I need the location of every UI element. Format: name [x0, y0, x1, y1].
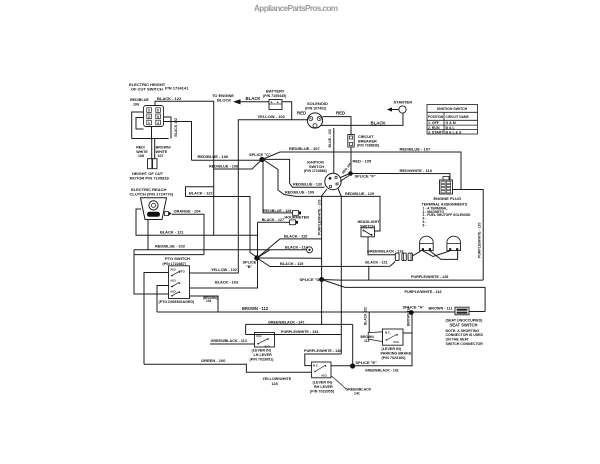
wire headlight plug to lamp 1	[413, 251, 421, 256]
svg-text:6 -: 6 -	[423, 223, 427, 227]
svg-text:3. START: 3. START	[428, 130, 444, 134]
solenoid body	[307, 113, 322, 128]
svg-text:BLACK: BLACK	[246, 96, 262, 101]
svg-text:114: 114	[364, 339, 370, 343]
svg-text:ENGINE PLUG: ENGINE PLUG	[434, 196, 462, 201]
wire purple/white drop at x=368.8	[368, 266, 370, 280]
svg-text:(LEVER IN): (LEVER IN)	[252, 348, 272, 352]
svg-text:GREEN - 100: GREEN - 100	[201, 358, 226, 363]
splice C	[259, 157, 264, 162]
wire drop to splice E from lever line	[352, 324, 354, 366]
svg-text:BLACK - 110: BLACK - 110	[284, 234, 307, 239]
wire jog above BLACK-122 label	[186, 187, 214, 197]
battery terminals	[269, 103, 282, 105]
svg-text:104: 104	[206, 299, 212, 303]
svg-text:SPLICE "D": SPLICE "D"	[300, 277, 322, 282]
svg-text:YELLOW/WHITE: YELLOW/WHITE	[263, 377, 292, 381]
wire GREEN/BLACK-147	[246, 323, 353, 325]
wire motor double lead right	[154, 139, 156, 159]
svg-text:RED/BLUE - 108: RED/BLUE - 108	[209, 164, 238, 168]
wire lever feed left vertical	[245, 324, 247, 334]
svg-text:BLACK - 115: BLACK - 115	[280, 261, 304, 266]
wire ignition to splice F lower	[340, 176, 349, 182]
svg-text:N.O.: N.O.	[394, 340, 400, 344]
svg-text:PURPLE/WHITE - 116: PURPLE/WHITE - 116	[405, 290, 442, 294]
connector seat switch shorting plug	[455, 307, 469, 315]
svg-text:RED/BLUE - 107: RED/BLUE - 107	[289, 146, 320, 151]
wire RED/BLUE-109 splice C to ignition area	[263, 160, 341, 197]
svg-text:SPLICE "E": SPLICE "E"	[356, 360, 378, 365]
connector headlight barrel 1	[395, 253, 399, 261]
wire GREEN-100 PTO feed	[144, 273, 169, 365]
splice B	[254, 255, 259, 260]
svg-text:106: 106	[133, 102, 139, 106]
wire RED/BLUE-130 splice C to ignition	[263, 159, 325, 187]
svg-text:128: 128	[272, 382, 278, 386]
wire PURPLE/WHITE-128 splice D to headlight return	[322, 279, 484, 282]
svg-text:2. RUN: 2. RUN	[428, 126, 440, 130]
PTO switch contacts	[171, 267, 186, 293]
svg-text:RED/BLUE - 107: RED/BLUE - 107	[400, 146, 431, 151]
svg-text:SPLICE "C": SPLICE "C"	[249, 152, 271, 157]
parking brake switch body	[383, 329, 404, 345]
svg-text:G & M: G & M	[446, 121, 456, 125]
svg-text:(P/N 7023055): (P/N 7023055)	[310, 390, 335, 394]
svg-text:CONNECTOR IS USED: CONNECTOR IS USED	[446, 333, 484, 337]
connector ORANGE-104 plug	[165, 212, 169, 216]
svg-text:(P/N 1719866): (P/N 1719866)	[304, 169, 327, 173]
svg-text:BLACK - 127: BLACK - 127	[262, 218, 284, 222]
svg-text:SWITCH: SWITCH	[309, 165, 324, 169]
svg-text:(LEVER IN): (LEVER IN)	[313, 380, 333, 384]
wire BLACK-121 clutch to splice B	[136, 209, 258, 235]
wire lamp 1 right foot to lamp 2	[430, 251, 458, 260]
wire RED/BLUE-103 and BLACK-114 bus	[134, 249, 306, 251]
wire RED/BLUE-103 to PTO lower pin	[134, 250, 169, 294]
svg-text:5: 5	[157, 115, 159, 119]
svg-text:N.C.: N.C.	[257, 334, 263, 338]
svg-text:BLUE - 102: BLUE - 102	[328, 129, 332, 148]
svg-text:BROWN - 111: BROWN - 111	[429, 306, 453, 310]
svg-text:BLACK - 121: BLACK - 121	[160, 230, 184, 235]
headlight switch symbol	[363, 230, 372, 236]
wire RED/BLUE-106 bus	[192, 159, 264, 161]
svg-text:(LEVER IN): (LEVER IN)	[382, 347, 402, 351]
splice E	[350, 363, 355, 368]
svg-text:108: 108	[138, 154, 144, 158]
wire PURPLE/WHITE-103 ignition to splice D	[322, 189, 327, 325]
svg-text:CIRCUIT NAME: CIRCUIT NAME	[446, 115, 469, 119]
svg-text:B & L: B & L	[446, 126, 456, 130]
svg-text:N.O.: N.O.	[171, 278, 177, 282]
svg-text:HOURMETER: HOURMETER	[285, 216, 310, 220]
svg-text:LH LEVER: LH LEVER	[254, 353, 273, 357]
wire PURPLE/WHITE-134	[246, 334, 342, 336]
connector HOC switch body	[144, 106, 164, 127]
svg-text:P/N 1734141: P/N 1734141	[165, 86, 189, 91]
svg-text:(P/N 7105445): (P/N 7105445)	[263, 94, 287, 98]
wire parking brake right pin	[403, 332, 412, 334]
connector engine plug	[443, 177, 449, 181]
wire splice B vertical up to BLACK-127	[257, 222, 259, 258]
wire RED-105 breaker to splice F	[350, 147, 352, 172]
svg-text:BROWN 124: BROWN 124	[407, 307, 411, 326]
wire clutch to RED/BLUE-103	[147, 220, 149, 250]
svg-text:IGNITION SWITCH: IGNITION SWITCH	[437, 107, 468, 111]
circuit breaker terminals	[349, 136, 352, 139]
svg-text:BLACK - 122: BLACK - 122	[189, 190, 213, 195]
svg-text:PURPLE/WHITE - 120: PURPLE/WHITE - 120	[478, 223, 482, 258]
svg-text:SPLICE "F": SPLICE "F"	[355, 173, 376, 178]
svg-text:RED/WHITE - 110: RED/WHITE - 110	[400, 168, 433, 173]
connector funnel into parking brake	[368, 332, 382, 342]
svg-text:SPLICE "A": SPLICE "A"	[403, 304, 425, 309]
wire BLACK solenoid to starter	[321, 113, 403, 125]
terminal eyelet BLACK-114	[307, 247, 313, 253]
svg-text:3: 3	[148, 109, 150, 113]
svg-text:PARKING BRAKE: PARKING BRAKE	[381, 352, 412, 356]
wire starter lead	[390, 109, 399, 111]
svg-text:BLACK - 103: BLACK - 103	[215, 280, 238, 284]
svg-text:SWITCH CONNECTOR: SWITCH CONNECTOR	[446, 342, 484, 346]
svg-text:POSITION: POSITION	[428, 115, 444, 119]
wire RED solenoid to circuit breaker	[323, 117, 351, 135]
svg-text:"B": "B"	[246, 265, 253, 269]
RH lever switch body	[312, 362, 331, 378]
wire battery ground to engine block	[240, 101, 269, 103]
splice F	[348, 171, 353, 176]
LH lever switch body	[255, 333, 275, 348]
svg-text:RED - 105: RED - 105	[353, 159, 372, 164]
wire ORANGE-104	[172, 214, 204, 254]
svg-text:N.O.: N.O.	[171, 267, 177, 271]
PTO switch body	[169, 266, 190, 299]
circuit breaker body	[348, 135, 354, 148]
svg-text:BLACK - 114: BLACK - 114	[285, 245, 309, 249]
wire GREEN/BLACK-133 headlight switch to lamps	[368, 237, 395, 255]
svg-text:PURPLE/WHITE - 134: PURPLE/WHITE - 134	[281, 330, 319, 334]
connector hourmeter plug lower	[290, 220, 296, 225]
connector hourmeter plug upper	[293, 211, 299, 216]
wire RED battery to solenoid	[282, 102, 292, 120]
wire PTO top feed	[135, 254, 204, 256]
svg-text:(P/N 7023160): (P/N 7023160)	[382, 356, 407, 360]
wire HOC motor lead stub	[151, 127, 153, 139]
svg-text:ORANGE - 104: ORANGE - 104	[174, 208, 202, 213]
wire motor double lead left	[151, 139, 153, 159]
battery	[269, 100, 282, 110]
svg-text:RED/BLUE - 103: RED/BLUE - 103	[155, 244, 186, 249]
wire RED/BLUE-129 ignition to headlight switch	[341, 196, 380, 231]
wire BLACK-122 from HOC switch top to vertical bus	[155, 101, 214, 235]
wire RED/WHITE-110 splice F to engine plug	[351, 174, 451, 180]
svg-text:1. OFF: 1. OFF	[428, 121, 440, 125]
wire BROWN-112 bus	[157, 311, 455, 313]
wire BLACK-110 splice B to bus	[257, 239, 322, 258]
wire GREEN/BLACK-113 to LH lever	[210, 343, 255, 345]
svg-text:OF CUT SWITCH: OF CUT SWITCH	[131, 87, 163, 92]
wire GREEN-100 bus to RH lever	[144, 364, 312, 372]
lamp headlight right	[447, 236, 461, 250]
table IGNITION SWITCH positions	[427, 105, 478, 135]
svg-text:BLOCK: BLOCK	[217, 98, 231, 103]
headlight switch body	[361, 228, 375, 237]
wire BLACK-122 to splice B	[186, 197, 258, 258]
svg-text:141: 141	[354, 392, 360, 396]
wire BLACK-127 to hourmeter	[258, 221, 290, 223]
terminal HOC motor plug left	[148, 159, 152, 169]
svg-text:RH LEVER: RH LEVER	[314, 385, 333, 389]
svg-text:NOTE: A SHORTING: NOTE: A SHORTING	[446, 329, 480, 333]
arrowhead starter lead	[387, 107, 392, 111]
svg-text:RED: RED	[297, 111, 306, 116]
svg-text:RED/BLUE - 109: RED/BLUE - 109	[285, 191, 314, 195]
lamp headlight left	[420, 236, 434, 250]
wire BLACK-115/121 splice B to headlight plugs	[257, 258, 395, 267]
svg-text:ON THE SEAT: ON THE SEAT	[446, 338, 470, 342]
wire HOC bottom bar	[132, 138, 169, 140]
ignition switch body	[325, 173, 341, 189]
svg-text:BATTERY: BATTERY	[266, 89, 285, 94]
wire splice B horizontal ray	[257, 257, 322, 259]
arrowhead to engine block	[233, 99, 241, 104]
wire RH lever to splice E	[331, 365, 353, 367]
wire seat switch to purple/white return	[469, 311, 485, 313]
svg-text:RED/BLUE - 106: RED/BLUE - 106	[198, 154, 229, 159]
wire BLUE-102 solenoid to ignition switch	[333, 128, 335, 174]
splice A	[409, 310, 414, 315]
wire RED/BLUE-107 splice C to engine plug	[262, 152, 461, 190]
wire HOC right pin to RED/BLUE-106 bus	[164, 122, 192, 161]
wire splice E to splice A drop	[353, 313, 412, 366]
svg-text:BLACK - 121: BLACK - 121	[365, 261, 387, 265]
svg-text:N.O.: N.O.	[322, 373, 328, 377]
svg-text:PURPLE/WHITE - 138: PURPLE/WHITE - 138	[304, 349, 341, 353]
splice D	[319, 277, 324, 282]
connector headlight barrel 2	[402, 253, 406, 261]
svg-text:SEAT SWITCH: SEAT SWITCH	[450, 322, 478, 327]
wire BROWN-112 PTO feed	[157, 286, 169, 313]
wire ignition to splice F upper	[341, 174, 349, 178]
svg-text:PTO SWITCH: PTO SWITCH	[165, 256, 190, 261]
svg-text:(P/N 107402): (P/N 107402)	[305, 107, 327, 111]
svg-text:PURPLE/WHITE - 128: PURPLE/WHITE - 128	[411, 275, 448, 279]
svg-text:4: 4	[157, 121, 159, 125]
connector HOC switch pins	[147, 108, 161, 125]
svg-text:N.C.: N.C.	[385, 331, 391, 335]
svg-text:2: 2	[148, 115, 150, 119]
leader GREEN/BLACK 141	[332, 376, 347, 389]
svg-text:GREEN/BLACK - 142: GREEN/BLACK - 142	[365, 368, 399, 372]
svg-text:N.C.: N.C.	[313, 363, 319, 367]
svg-text:STARTER: STARTER	[394, 99, 413, 104]
wire BLACK-103 PTO to splice B	[190, 258, 258, 288]
svg-text:BLACK 122: BLACK 122	[174, 118, 178, 137]
svg-text:6: 6	[157, 109, 159, 113]
svg-text:107: 107	[158, 154, 164, 158]
wire HOC left loop inner	[136, 118, 144, 130]
svg-text:3 - FUEL SHUTOFF SOLENOID: 3 - FUEL SHUTOFF SOLENOID	[423, 213, 471, 217]
svg-text:BROWN - 112: BROWN - 112	[242, 306, 269, 311]
svg-text:BLACK: BLACK	[371, 120, 387, 125]
svg-text:SOLENOID: SOLENOID	[307, 101, 328, 106]
wire HOC right pin to bottom bar	[164, 117, 172, 139]
wire lamp 1 left foot to lamp 2 cross	[423, 251, 450, 257]
svg-text:MOTOR P/N 7105818: MOTOR P/N 7105818	[130, 176, 170, 181]
wire HOC left loop outer to bottom bar	[132, 112, 144, 139]
wire BLACK-152 brown bus to parking brake funnel	[368, 312, 370, 333]
svg-text:(P/N 7023051): (P/N 7023051)	[250, 358, 275, 362]
svg-text:YELLOW - 102: YELLOW - 102	[258, 114, 286, 119]
wire PURPLE/WHITE-116 splice D to seat switch	[322, 280, 486, 312]
wire YELLOW-102 battery to solenoid and down to PTO	[190, 120, 308, 273]
starter motor	[399, 106, 406, 113]
wire RED/BLUE-128 to hourmeter	[263, 160, 293, 213]
wire PURPLE/WHITE-138 to RH lever	[305, 354, 342, 366]
svg-text:RED/BLUE - 129: RED/BLUE - 129	[345, 192, 374, 196]
svg-text:GREEN/BLACK - 113: GREEN/BLACK - 113	[211, 339, 247, 343]
wire BROWN-104 PTO to brown bus	[190, 296, 219, 312]
svg-text:RED: RED	[336, 111, 345, 116]
svg-text:BLACK 152: BLACK 152	[364, 307, 368, 325]
svg-text:B & L & S: B & L & S	[446, 130, 463, 134]
svg-text:RED/BLUE - 128: RED/BLUE - 128	[263, 209, 291, 213]
svg-text:AppliancePartsPros.com: AppliancePartsPros.com	[254, 4, 338, 13]
svg-text:(PTO DISENGAGED): (PTO DISENGAGED)	[159, 300, 196, 304]
wire engine plug right to purple/white bus	[453, 190, 484, 281]
svg-text:BLACK - 122: BLACK - 122	[157, 96, 182, 101]
wire ignition to right vertical bus	[338, 189, 341, 355]
terminal HOC motor plug right	[153, 159, 157, 169]
svg-text:PURPLE/WHITE - 103: PURPLE/WHITE - 103	[317, 200, 321, 235]
svg-text:YELLOW - 102: YELLOW - 102	[211, 268, 237, 272]
svg-text:1: 1	[148, 121, 150, 125]
svg-text:RED/BLUE - 130: RED/BLUE - 130	[293, 182, 322, 186]
svg-text:SPLICE: SPLICE	[243, 261, 257, 265]
connector headlight barrel 3	[408, 253, 412, 261]
wire BLACK-114 splice B diagonal	[257, 250, 270, 258]
svg-text:(P/N 1722887): (P/N 1722887)	[163, 262, 187, 266]
svg-text:IGNITION: IGNITION	[307, 160, 324, 164]
wire RED/BLUE-108 splice C to hourmeter branch	[214, 160, 262, 170]
svg-text:N.O.: N.O.	[171, 289, 177, 293]
clutch body	[141, 198, 167, 220]
svg-text:(P/N 7028838): (P/N 7028838)	[357, 144, 379, 148]
svg-text:CLUTCH (P/N 1724776): CLUTCH (P/N 1724776)	[130, 192, 174, 197]
